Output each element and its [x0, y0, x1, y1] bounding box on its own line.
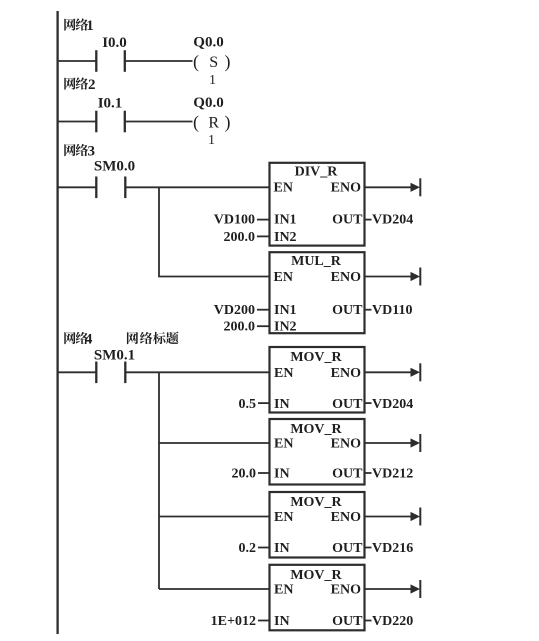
- MOV_R2 input stub IN: [258, 472, 270, 474]
- coil Q0.0 (R): [193, 95, 231, 148]
- contact I0.1: [95, 111, 97, 133]
- coil Q0.0 (S): [193, 35, 231, 88]
- svg-text:ENO: ENO: [331, 181, 361, 196]
- MOV_R4 ENO output wire with arrow terminator: [365, 588, 413, 590]
- svg-text:MUL_R: MUL_R: [291, 254, 342, 269]
- function block MUL_R box: [270, 252, 365, 333]
- MUL_R box pin labels: [274, 254, 364, 335]
- svg-text:OUT: OUT: [332, 303, 363, 318]
- svg-text:200.0: 200.0: [224, 320, 256, 335]
- svg-text:MOV_R: MOV_R: [290, 568, 342, 583]
- svg-text:IN2: IN2: [274, 230, 297, 245]
- svg-text:SM0.1: SM0.1: [94, 348, 135, 364]
- contact SM0.1: [95, 362, 97, 384]
- svg-text:20.0: 20.0: [232, 467, 257, 482]
- svg-text:VD212: VD212: [372, 467, 413, 482]
- svg-text:VD204: VD204: [372, 397, 413, 412]
- svg-text:OUT: OUT: [332, 397, 363, 412]
- svg-text:EN: EN: [274, 510, 293, 525]
- svg-text:1E+012: 1E+012: [211, 614, 256, 629]
- svg-text:EN: EN: [274, 181, 293, 196]
- svg-text:OUT: OUT: [332, 213, 363, 228]
- svg-text:Q0.0: Q0.0: [193, 35, 223, 51]
- wire branch tap to MOV_R2: [159, 442, 270, 444]
- svg-text:IN: IN: [274, 397, 290, 412]
- label network title (网络标题): [127, 332, 179, 345]
- contact SM0.0: [95, 177, 97, 199]
- MOV_R4 input stub IN: [258, 620, 270, 622]
- left power rail: [56, 11, 58, 634]
- svg-text:EN: EN: [274, 270, 293, 285]
- svg-text:MOV_R: MOV_R: [290, 495, 342, 510]
- svg-text:): ): [225, 51, 231, 72]
- wire rung3 left segment: [58, 186, 97, 188]
- svg-text:I0.0: I0.0: [102, 35, 127, 51]
- svg-text:IN1: IN1: [274, 213, 297, 228]
- DIV_R input stub IN1: [257, 219, 270, 221]
- MOV_R1 output stub OUT: [365, 402, 372, 404]
- wire rung4 to MOV_R1 EN: [125, 371, 269, 373]
- svg-text:OUT: OUT: [332, 467, 363, 482]
- svg-text:VD220: VD220: [372, 614, 413, 629]
- DIV_R input stub IN2: [257, 235, 270, 237]
- svg-text:MOV_R: MOV_R: [290, 350, 342, 365]
- wire branch net3 vertical: [159, 187, 270, 276]
- label network3 (网络3): [64, 144, 95, 160]
- MOV_R4 box pin labels: [274, 568, 363, 629]
- svg-text:(: (: [193, 51, 199, 72]
- svg-text:IN1: IN1: [274, 303, 297, 318]
- svg-text:VD204: VD204: [372, 213, 413, 228]
- contact I0.0: [95, 50, 97, 72]
- MOV_R2 box pin labels: [274, 422, 363, 482]
- MUL_R output stub OUT: [365, 309, 372, 311]
- svg-text:OUT: OUT: [332, 614, 363, 629]
- svg-text:ENO: ENO: [331, 270, 361, 285]
- svg-text:OUT: OUT: [332, 541, 363, 556]
- svg-text:R: R: [208, 114, 219, 131]
- MUL_R ENO output wire with arrow terminator: [365, 276, 413, 278]
- svg-text:EN: EN: [274, 366, 293, 381]
- function block MOV_R2 box: [270, 419, 365, 485]
- MOV_R1 ENO output wire with arrow terminator: [365, 371, 413, 373]
- svg-text:SM0.0: SM0.0: [94, 159, 135, 175]
- MOV_R1 input stub IN: [258, 402, 270, 404]
- DIV_R output stub OUT: [365, 219, 372, 221]
- svg-text:ENO: ENO: [331, 437, 361, 452]
- svg-text:4: 4: [85, 332, 93, 348]
- label network2 (网络2): [64, 77, 95, 93]
- label network1 (网络1): [64, 18, 93, 34]
- svg-text:I0.1: I0.1: [98, 96, 123, 112]
- wire branch tap to MOV_R3: [159, 516, 270, 518]
- MOV_R3 output stub OUT: [365, 547, 372, 549]
- svg-text:IN: IN: [274, 614, 290, 629]
- function block MOV_R1 box: [270, 347, 365, 413]
- svg-text:VD100: VD100: [214, 213, 255, 228]
- wire rung2 to coil: [125, 121, 193, 123]
- svg-text:0.5: 0.5: [239, 397, 257, 412]
- wire branch net4 vertical: [158, 372, 160, 589]
- svg-text:ENO: ENO: [331, 583, 361, 598]
- svg-text:3: 3: [88, 144, 96, 160]
- wire rung1 left segment: [58, 60, 97, 62]
- MOV_R2 ENO output wire with arrow terminator: [365, 442, 413, 444]
- MOV_R1 box pin labels: [274, 350, 363, 412]
- svg-text:(: (: [193, 112, 199, 133]
- MOV_R3 box pin labels: [274, 495, 363, 556]
- DIV_R ENO output wire with arrow terminator: [365, 186, 413, 188]
- svg-text:1: 1: [208, 133, 215, 148]
- svg-text:1: 1: [209, 73, 216, 88]
- svg-text:Q0.0: Q0.0: [193, 95, 223, 111]
- wire rung2 left segment: [58, 121, 97, 123]
- svg-text:1: 1: [86, 18, 94, 34]
- wire rung3 to DIV_R EN: [125, 186, 269, 188]
- function block MOV_R4 box: [270, 565, 365, 631]
- MOV_R3 ENO output wire with arrow terminator: [365, 516, 413, 518]
- MOV_R2 output stub OUT: [365, 472, 372, 474]
- svg-text:IN: IN: [274, 541, 290, 556]
- svg-text:EN: EN: [274, 583, 293, 598]
- MOV_R4 output stub OUT: [365, 620, 372, 622]
- svg-text:2: 2: [88, 77, 96, 93]
- svg-text:VD110: VD110: [372, 303, 412, 318]
- svg-text:MOV_R: MOV_R: [290, 422, 342, 437]
- wire rung4 left segment: [58, 371, 97, 373]
- MUL_R input stub IN2: [257, 325, 270, 327]
- label network4 (网络4): [64, 332, 93, 348]
- svg-text:IN2: IN2: [274, 320, 297, 335]
- svg-text:IN: IN: [274, 467, 290, 482]
- DIV_R box pin labels: [274, 165, 364, 246]
- MUL_R input stub IN1: [257, 309, 270, 311]
- wire branch tap to MOV_R4: [159, 588, 270, 590]
- svg-text:ENO: ENO: [331, 366, 361, 381]
- svg-text:DIV_R: DIV_R: [295, 165, 339, 180]
- svg-text:VD200: VD200: [214, 303, 255, 318]
- svg-text:0.2: 0.2: [239, 541, 257, 556]
- svg-text:200.0: 200.0: [224, 230, 256, 245]
- wire rung1 to coil: [125, 60, 193, 62]
- svg-text:ENO: ENO: [331, 510, 361, 525]
- MOV_R3 input stub IN: [258, 547, 270, 549]
- svg-text:): ): [225, 112, 231, 133]
- svg-text:VD216: VD216: [372, 541, 413, 556]
- function block DIV_R box: [270, 163, 365, 246]
- svg-text:S: S: [209, 54, 218, 71]
- function block MOV_R3 box: [270, 492, 365, 558]
- svg-text:EN: EN: [274, 437, 293, 452]
